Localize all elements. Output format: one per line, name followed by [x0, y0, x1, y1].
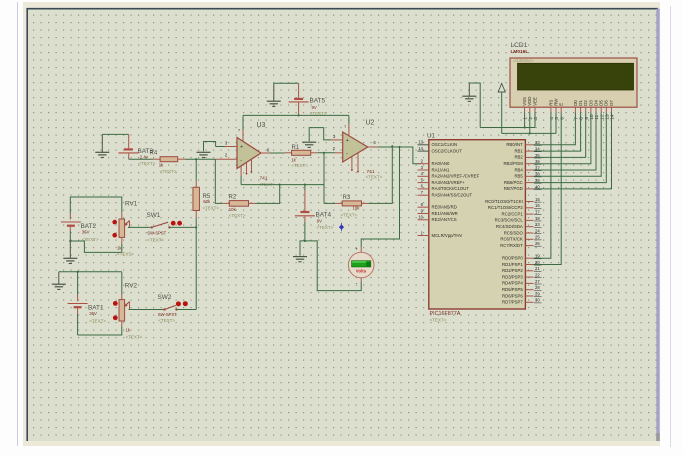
ground [293, 257, 307, 262]
node [323, 152, 325, 154]
wire VDD/RW to power [502, 93, 556, 135]
svg-text:23: 23 [535, 222, 540, 227]
resistor R5 [193, 181, 200, 219]
svg-text:RV2: RV2 [125, 283, 138, 290]
svg-text:24: 24 [535, 228, 540, 233]
svg-text:10: 10 [418, 215, 423, 220]
svg-text:RC3/SCK/SCL: RC3/SCK/SCL [495, 218, 524, 223]
wire [59, 271, 122, 273]
svg-text:RV1: RV1 [125, 201, 138, 208]
node R5 tap [195, 158, 197, 160]
svg-text:RA2/AN2/VREF-/CVREF: RA2/AN2/VREF-/CVREF [432, 174, 480, 179]
label LCD1 [511, 42, 529, 55]
wire [256, 185, 280, 204]
potentiometer RV2 [113, 272, 130, 327]
svg-text:SW1: SW1 [147, 212, 161, 219]
wire [309, 128, 331, 142]
label R4 [150, 151, 177, 174]
svg-text:+: + [240, 145, 243, 151]
svg-text:VEE: VEE [532, 97, 537, 106]
wire [70, 241, 122, 252]
svg-text:RD5/PSP5: RD5/PSP5 [502, 287, 523, 292]
svg-text:R1: R1 [292, 145, 300, 151]
wire [323, 153, 325, 204]
node [398, 146, 400, 148]
label RV1 [117, 201, 138, 257]
svg-text:13: 13 [418, 140, 423, 145]
resistor R4 [153, 157, 186, 162]
label U1 [427, 133, 435, 140]
svg-text:<CURRENT>: <CURRENT> [513, 59, 534, 63]
wire [240, 176, 242, 185]
svg-text:-: - [346, 151, 348, 157]
probe marker [339, 223, 344, 231]
label U2 [333, 120, 383, 180]
svg-text:<TEXT>: <TEXT> [126, 335, 143, 340]
svg-text:26: 26 [535, 241, 540, 246]
switch SW1 [151, 221, 182, 229]
wire [324, 202, 335, 204]
battery BAT5 [289, 83, 309, 115]
battery BAT1 [68, 272, 88, 335]
label R3 [341, 195, 361, 218]
svg-text:16: 16 [535, 203, 540, 208]
svg-text:15: 15 [535, 197, 540, 202]
wire V+ rail [243, 114, 349, 116]
wire VSS/VEE to ground [469, 83, 535, 129]
svg-text:36V: 36V [89, 311, 97, 316]
wire [195, 218, 197, 310]
wire LCD data bus [534, 113, 612, 189]
svg-text:RB0/INT: RB0/INT [506, 142, 523, 147]
node SW1 junction [195, 226, 197, 228]
U1 right pins [485, 140, 541, 304]
svg-text:RB5: RB5 [514, 174, 523, 179]
wire [176, 309, 196, 311]
svg-text:LCD1: LCD1 [511, 42, 528, 49]
ground [95, 134, 109, 157]
svg-text:RB2: RB2 [514, 155, 523, 160]
svg-text:RD6/PSP6: RD6/PSP6 [502, 293, 523, 298]
svg-text:Volts: Volts [356, 269, 367, 274]
svg-text:<TEXT>: <TEXT> [158, 318, 175, 323]
svg-text:3: 3 [533, 117, 538, 120]
ground [462, 83, 476, 101]
label BAT3 [138, 148, 156, 166]
svg-text:RA1/AN1: RA1/AN1 [432, 167, 451, 172]
svg-text:U1: U1 [427, 133, 435, 140]
wire [70, 197, 122, 214]
svg-text:<TEXT>: <TEXT> [202, 206, 219, 211]
node BAT5 tap [298, 114, 300, 116]
svg-text:+: + [355, 247, 358, 252]
svg-text:PIC16F877A: PIC16F877A [430, 311, 461, 317]
svg-text:-: - [240, 158, 242, 164]
ground [302, 142, 316, 147]
svg-text:RC0/T1OSO/T1CKI: RC0/T1OSO/T1CKI [485, 199, 523, 204]
label R2 [229, 195, 246, 218]
wire [215, 159, 222, 203]
ground [197, 152, 211, 157]
svg-text:OSC2/CLKOUT: OSC2/CLKOUT [432, 148, 463, 153]
resistor R2 [222, 201, 255, 207]
svg-text:<TEXT>: <TEXT> [147, 238, 164, 243]
wire [195, 159, 197, 180]
node [69, 240, 71, 242]
svg-text:17: 17 [535, 210, 540, 215]
svg-text:9V: 9V [317, 218, 322, 223]
wire RS to RD0 [534, 113, 551, 259]
svg-text:RC1/T1OSI/CCP2: RC1/T1OSI/CCP2 [488, 205, 523, 210]
svg-text:RE1/AN6/WR: RE1/AN6/WR [432, 211, 458, 216]
label BAT4 [316, 212, 334, 230]
wire [128, 226, 151, 228]
label U3 [225, 122, 276, 187]
svg-text:RD7/PSP7: RD7/PSP7 [502, 300, 523, 305]
wire [186, 158, 216, 160]
switch SW2 [163, 301, 187, 310]
battery BAT3 [118, 134, 138, 159]
svg-text:<TEXT>: <TEXT> [229, 213, 246, 218]
wire [274, 82, 299, 84]
power arrow [498, 83, 505, 92]
wire [300, 241, 305, 256]
label BAT1 [88, 305, 106, 324]
ground [52, 272, 66, 290]
svg-text:6: 6 [559, 117, 564, 120]
svg-text:14: 14 [610, 114, 615, 120]
svg-text:RB7/PGD: RB7/PGD [504, 186, 523, 191]
microcontroller U1 body [429, 140, 526, 309]
wire [102, 133, 128, 135]
svg-text:14: 14 [418, 146, 423, 151]
svg-text:RA5/AN4/SS/C2OUT: RA5/AN4/SS/C2OUT [432, 193, 473, 198]
wire [305, 241, 361, 291]
svg-text:R3: R3 [343, 195, 351, 201]
svg-text:E: E [559, 103, 564, 106]
svg-text:RB1: RB1 [514, 148, 523, 153]
wire [318, 152, 335, 154]
svg-text:<TEXT>: <TEXT> [117, 251, 134, 256]
svg-text:+: + [346, 138, 349, 144]
svg-text:RE2/AN7/CS: RE2/AN7/CS [432, 217, 457, 222]
svg-text:<TEXT>: <TEXT> [160, 169, 177, 174]
label RV2 [125, 283, 143, 340]
svg-text:U3: U3 [257, 122, 266, 129]
svg-text:RD4/PSP4: RD4/PSP4 [502, 281, 523, 286]
svg-text:741: 741 [260, 175, 268, 181]
label SW1 [147, 212, 167, 243]
svg-text:<TEXT>: <TEXT> [430, 318, 447, 323]
op-amp U2 [331, 115, 378, 173]
wire [204, 142, 216, 152]
node [391, 145, 393, 147]
svg-text:<TEXT>: <TEXT> [310, 111, 327, 116]
wire E to RD1 [534, 113, 562, 265]
svg-text:RC6/TX/CK: RC6/TX/CK [500, 237, 523, 242]
svg-text:9V: 9V [312, 105, 317, 110]
wire [129, 158, 153, 160]
U1 left pins [418, 140, 480, 238]
svg-text:RB6/PGC: RB6/PGC [504, 180, 523, 185]
svg-text:7: 7 [238, 129, 240, 133]
svg-text:R2: R2 [229, 195, 237, 201]
label BAT5 [310, 98, 327, 117]
svg-text:7: 7 [344, 125, 346, 129]
svg-text:RA4/T0CKI/C1OUT: RA4/T0CKI/C1OUT [432, 186, 470, 191]
svg-text:10k: 10k [353, 206, 361, 211]
svg-text:LM016L: LM016L [511, 49, 529, 55]
svg-text:<TEXT>: <TEXT> [89, 318, 106, 323]
battery BAT2 [61, 214, 81, 242]
svg-text:<TEXT>: <TEXT> [341, 213, 358, 218]
svg-text:RD1/PSP1: RD1/PSP1 [502, 262, 523, 267]
battery BAT4 [295, 185, 315, 241]
wire [169, 226, 196, 228]
wire V- rail [241, 184, 324, 186]
ground [267, 83, 281, 106]
svg-text:RB4: RB4 [514, 167, 523, 172]
svg-text:25: 25 [535, 235, 540, 240]
svg-text:RB3/PGM: RB3/PGM [503, 161, 523, 166]
svg-text:28: 28 [535, 285, 540, 290]
svg-text:RD2/PSP2: RD2/PSP2 [502, 268, 523, 273]
svg-text:RA3/AN3/VREF+: RA3/AN3/VREF+ [432, 180, 466, 185]
resistor R3 [335, 201, 368, 206]
label BAT2 [81, 223, 99, 242]
svg-text:RC4/SDI/SDA: RC4/SDI/SDA [496, 224, 523, 229]
svg-text:OSC1/CLKIN: OSC1/CLKIN [432, 142, 458, 147]
label R1 [291, 145, 308, 168]
voltmeter [348, 247, 374, 287]
node [77, 271, 79, 273]
wire [378, 147, 421, 164]
svg-text:<TEXT>: <TEXT> [291, 163, 308, 168]
ground [63, 241, 77, 264]
svg-text:22: 22 [535, 273, 540, 278]
node [304, 240, 306, 242]
svg-text:10k: 10k [229, 207, 237, 212]
svg-text:RC5/SDO: RC5/SDO [504, 230, 524, 235]
svg-text:<TEXT>: <TEXT> [317, 225, 334, 230]
svg-text:<TEXT>: <TEXT> [139, 161, 156, 166]
svg-text:SW-SPST: SW-SPST [147, 231, 166, 236]
svg-text:RC2/CCP1: RC2/CCP1 [502, 211, 524, 216]
svg-text:30: 30 [535, 298, 540, 303]
svg-text:SW2: SW2 [158, 294, 172, 301]
svg-text:RD3/PSP3: RD3/PSP3 [502, 274, 523, 279]
svg-text:21: 21 [535, 266, 540, 271]
svg-text:60k: 60k [203, 199, 211, 204]
svg-text:SW-SPST: SW-SPST [158, 312, 177, 317]
node [279, 184, 306, 186]
svg-text:27: 27 [535, 279, 540, 284]
svg-text:RE0/AN5/RD: RE0/AN5/RD [432, 204, 457, 209]
svg-text:RC7/RX/DT: RC7/RX/DT [500, 243, 523, 248]
op-amp U3 [215, 115, 270, 176]
label PIC16F877A [430, 311, 461, 322]
svg-text:RD0/PSP0: RD0/PSP0 [502, 256, 523, 261]
LCD pins [522, 97, 615, 120]
wire [369, 146, 393, 203]
svg-text:MCLR/Vpp/THV: MCLR/Vpp/THV [432, 233, 463, 238]
svg-text:36V: 36V [82, 229, 90, 234]
wire [129, 309, 164, 311]
wire [361, 147, 399, 247]
svg-text:18: 18 [535, 216, 540, 221]
wire [78, 327, 122, 336]
svg-text:<TEXT>: <TEXT> [366, 174, 383, 179]
svg-text:BAT5: BAT5 [310, 98, 326, 105]
resistor R1 [285, 150, 318, 155]
potentiometer RV1 [112, 212, 129, 244]
svg-text:R4: R4 [150, 151, 158, 157]
label SW2 [158, 294, 178, 323]
svg-text:U2: U2 [366, 120, 375, 127]
svg-text:RA0/AN0: RA0/AN0 [432, 161, 451, 166]
svg-text:D7: D7 [609, 100, 614, 106]
LCD LCD1 body [510, 58, 637, 107]
label R5 [202, 194, 219, 211]
svg-text:29: 29 [535, 291, 540, 296]
wire [270, 152, 285, 154]
